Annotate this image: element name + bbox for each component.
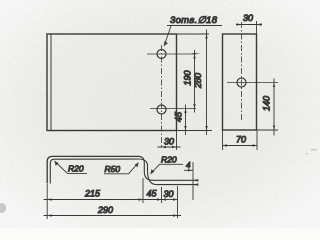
centerline upper hole horizontal	[147, 53, 196, 55]
dim 290	[44, 214, 182, 216]
front view bottom edge extension	[177, 130, 213, 132]
dim 280 line	[205, 30, 207, 136]
dim 215	[44, 178, 144, 219]
leader R50	[104, 163, 139, 174]
side view horizontal centerline	[227, 82, 278, 84]
thickness 4 extension line	[192, 162, 194, 200]
side view hole	[237, 78, 246, 87]
leader R20 left	[55, 161, 88, 174]
front view plate outline	[47, 34, 177, 131]
leader 3 holes note	[164, 26, 222, 47]
thickness 4 arrow	[184, 169, 193, 171]
profile inner line left flange	[50, 159, 139, 184]
centerline vertical through holes	[161, 45, 163, 148]
side view vertical centerline	[241, 22, 243, 122]
profile right bend upper surface	[139, 156, 196, 180]
dim 140 line	[273, 79, 275, 136]
hole upper	[157, 50, 166, 59]
faint marks right edge	[311, 149, 317, 150]
profile right bend lower surface	[139, 159, 196, 185]
side view plate outline	[223, 34, 257, 130]
front view top edge extension to 280 dim	[177, 33, 210, 35]
dim 30 below front plate	[158, 131, 181, 150]
dim 45 (bottom view)	[143, 187, 162, 203]
smudge bottom left edge	[0, 203, 6, 213]
dim 190 line	[192, 50, 201, 113]
leg end arrows at thickness extension	[193, 179, 198, 186]
dim 30 top of side view	[236, 21, 262, 34]
leader R20 right	[151, 164, 184, 174]
dim 45 line (front)	[184, 105, 186, 136]
dim 30 (bottom view)	[162, 186, 178, 218]
side view bottom edge extension right	[257, 129, 279, 131]
hole lower	[157, 105, 166, 114]
profile top surface	[47, 156, 139, 183]
dim 70 bottom of side view	[223, 130, 258, 150]
centerline lower hole horizontal	[150, 108, 196, 110]
